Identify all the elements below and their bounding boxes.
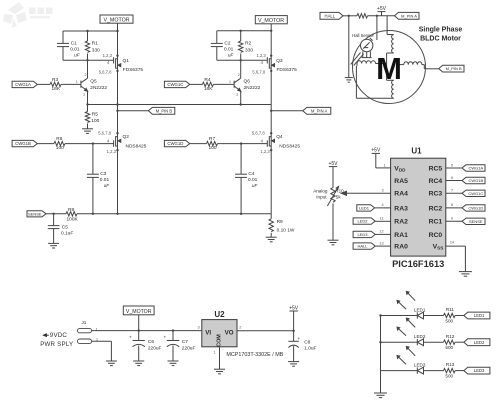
- svg-text:COM: COM: [217, 334, 223, 347]
- svg-text:uF: uF: [104, 183, 110, 188]
- svg-text:R12: R12: [446, 334, 455, 339]
- svg-text:R9: R9: [277, 219, 283, 225]
- svg-text:HALL: HALL: [357, 244, 368, 249]
- svg-text:4: 4: [107, 60, 110, 65]
- svg-text:M_PIN B: M_PIN B: [156, 108, 173, 113]
- svg-text:CWG1A: CWG1A: [468, 166, 483, 171]
- svg-text:16K: 16K: [52, 86, 61, 92]
- svg-text:13: 13: [379, 241, 383, 245]
- svg-text:RC2: RC2: [429, 205, 443, 212]
- svg-text:VSS: VSS: [433, 244, 444, 251]
- svg-text:RA4: RA4: [394, 191, 408, 198]
- svg-text:RA2: RA2: [394, 219, 408, 226]
- svg-text:C4: C4: [248, 171, 254, 177]
- svg-text:6: 6: [451, 176, 453, 180]
- svg-text:R11: R11: [446, 307, 455, 312]
- svg-text:M_PIN A: M_PIN A: [311, 108, 327, 113]
- svg-text:LED2: LED2: [414, 334, 426, 339]
- svg-text:RC1: RC1: [429, 219, 443, 226]
- svg-text:1: 1: [383, 163, 385, 167]
- svg-text:R10: R10: [335, 188, 344, 193]
- svg-text:LED3: LED3: [357, 232, 368, 237]
- svg-text:5,6,7,8: 5,6,7,8: [252, 70, 265, 75]
- svg-text:0.10 1W: 0.10 1W: [277, 227, 295, 233]
- svg-text:4: 4: [381, 203, 383, 207]
- svg-text:V_MOTOR: V_MOTOR: [126, 309, 152, 315]
- svg-text:R3: R3: [52, 77, 58, 83]
- svg-text:C1: C1: [71, 41, 77, 47]
- svg-text:12: 12: [379, 230, 383, 234]
- svg-text:R5: R5: [92, 112, 98, 118]
- svg-text:14: 14: [450, 240, 454, 244]
- svg-text:1.0uF: 1.0uF: [304, 345, 316, 351]
- svg-text:Single Phase: Single Phase: [419, 27, 463, 34]
- svg-text:4: 4: [107, 138, 110, 143]
- svg-text:16K: 16K: [204, 86, 213, 92]
- svg-text:2: 2: [239, 326, 241, 330]
- svg-text:PWR SPLY: PWR SPLY: [40, 341, 73, 348]
- svg-text:3: 3: [197, 326, 199, 330]
- svg-text:U2: U2: [214, 310, 225, 319]
- svg-text:7: 7: [451, 189, 453, 193]
- svg-text:Q6: Q6: [244, 78, 251, 84]
- svg-text:CWG1C: CWG1C: [167, 82, 183, 87]
- svg-text:500: 500: [445, 345, 453, 350]
- svg-text:220uF: 220uF: [182, 346, 196, 352]
- svg-text:FDS6375: FDS6375: [123, 67, 144, 73]
- svg-text:Q3: Q3: [276, 58, 283, 64]
- svg-text:C2: C2: [224, 41, 230, 47]
- svg-text:FDS6375: FDS6375: [277, 67, 298, 73]
- svg-text:RA3: RA3: [394, 205, 408, 212]
- svg-text:5k: 5k: [336, 194, 342, 199]
- svg-text:M_PIN B: M_PIN B: [446, 66, 462, 71]
- svg-text:11: 11: [380, 217, 384, 221]
- svg-text:LED1: LED1: [414, 307, 426, 312]
- svg-text:R4: R4: [204, 77, 210, 83]
- svg-text:500: 500: [445, 318, 453, 323]
- svg-text:1,2,3: 1,2,3: [103, 53, 113, 58]
- svg-text:+: +: [163, 335, 166, 340]
- svg-text:uF: uF: [74, 52, 80, 57]
- svg-text:M: M: [376, 51, 402, 86]
- svg-text:uF: uF: [252, 183, 258, 188]
- svg-text:8: 8: [451, 203, 453, 207]
- svg-text:V_MOTOR: V_MOTOR: [103, 18, 129, 24]
- svg-text:RA1: RA1: [394, 232, 408, 239]
- svg-text:+: +: [298, 336, 301, 341]
- svg-text:Analog: Analog: [313, 188, 328, 193]
- svg-text:NDS8425: NDS8425: [279, 143, 300, 149]
- svg-text:CWG1D: CWG1D: [468, 206, 483, 211]
- svg-text:Hall Sensor: Hall Sensor: [352, 33, 374, 38]
- svg-text:VO: VO: [225, 329, 234, 336]
- svg-text:SENSE: SENSE: [469, 219, 483, 224]
- svg-text:LED2: LED2: [474, 340, 485, 345]
- svg-text:100: 100: [209, 145, 217, 151]
- svg-text:R13: R13: [446, 362, 455, 367]
- svg-text:PIC16F1613: PIC16F1613: [392, 259, 444, 269]
- svg-text:+: +: [129, 335, 132, 340]
- svg-text:1: 1: [76, 80, 78, 84]
- svg-text:330: 330: [245, 47, 253, 53]
- svg-text:4: 4: [261, 138, 264, 143]
- svg-text:2N2222: 2N2222: [244, 85, 261, 91]
- svg-text:Q1: Q1: [123, 58, 130, 64]
- svg-text:CWG1C: CWG1C: [468, 191, 483, 196]
- svg-text:5,6,7,8: 5,6,7,8: [252, 130, 265, 135]
- svg-text:RA5: RA5: [394, 178, 408, 185]
- svg-text:Q2: Q2: [123, 134, 130, 140]
- svg-text:500: 500: [445, 374, 453, 379]
- svg-text:100K: 100K: [67, 217, 79, 223]
- svg-text:uF: uF: [228, 52, 234, 57]
- svg-text:R2: R2: [245, 41, 251, 47]
- svg-text:1: 1: [229, 80, 231, 84]
- svg-text:1,2,3: 1,2,3: [256, 53, 266, 58]
- svg-text:LED2: LED2: [357, 219, 368, 224]
- svg-text:Q4: Q4: [276, 134, 283, 140]
- svg-text:C3: C3: [100, 171, 106, 177]
- svg-text:5,6,7,8: 5,6,7,8: [98, 130, 111, 135]
- svg-text:9: 9: [451, 217, 453, 221]
- svg-text:C6: C6: [148, 339, 154, 345]
- svg-text:1,2,3: 1,2,3: [107, 149, 117, 154]
- svg-text:C5: C5: [62, 225, 68, 231]
- svg-text:2: 2: [236, 93, 238, 97]
- svg-text:100: 100: [56, 145, 64, 151]
- svg-text:5: 5: [451, 163, 453, 167]
- svg-text:RC4: RC4: [429, 178, 443, 185]
- svg-text:M_PIN A: M_PIN A: [401, 13, 417, 18]
- svg-text:MCP1703T-3302E / MB: MCP1703T-3302E / MB: [226, 352, 283, 358]
- svg-text:LED1: LED1: [474, 313, 485, 318]
- svg-text:LED1: LED1: [359, 206, 370, 211]
- svg-text:4: 4: [261, 60, 264, 65]
- svg-text:V_MOTOR: V_MOTOR: [258, 18, 284, 24]
- svg-text:2: 2: [85, 73, 87, 77]
- svg-text:1,2,3: 1,2,3: [260, 149, 270, 154]
- svg-text:Input: Input: [316, 194, 327, 199]
- svg-text:LED3: LED3: [474, 368, 485, 373]
- svg-text:CWG1D: CWG1D: [167, 141, 183, 146]
- svg-text:2: 2: [238, 73, 240, 77]
- svg-text:3: 3: [381, 189, 383, 193]
- svg-text:C8: C8: [304, 339, 310, 345]
- svg-text:SENSE: SENSE: [28, 211, 42, 216]
- svg-text:330: 330: [92, 47, 100, 53]
- svg-text:C7: C7: [182, 339, 188, 345]
- svg-text:R7: R7: [209, 136, 215, 142]
- svg-text:NDS8425: NDS8425: [126, 143, 147, 149]
- svg-text:LED3: LED3: [414, 362, 426, 367]
- svg-text:CWG1A: CWG1A: [15, 82, 31, 87]
- svg-text:RA0: RA0: [394, 244, 408, 251]
- svg-text:BLDC Motor: BLDC Motor: [420, 36, 461, 43]
- svg-text:RC5: RC5: [429, 165, 443, 172]
- svg-text:R1: R1: [92, 41, 98, 47]
- svg-text:2: 2: [83, 93, 85, 97]
- svg-text:CWG1B: CWG1B: [468, 178, 483, 183]
- svg-text:1: 1: [214, 350, 216, 354]
- svg-text:HALL: HALL: [325, 13, 336, 18]
- svg-text:RC3: RC3: [429, 191, 443, 198]
- svg-text:U1: U1: [411, 146, 422, 155]
- svg-text:R6: R6: [56, 136, 62, 142]
- svg-text:VI: VI: [205, 329, 211, 336]
- svg-text:220uF: 220uF: [148, 346, 162, 352]
- svg-text:0.1uF: 0.1uF: [61, 231, 73, 237]
- svg-text:+5V: +5V: [371, 148, 381, 154]
- svg-text:9VDC: 9VDC: [50, 332, 68, 339]
- svg-text:VDD: VDD: [394, 165, 406, 172]
- svg-text:100: 100: [91, 118, 99, 124]
- svg-text:5,6,7,8: 5,6,7,8: [99, 70, 112, 75]
- svg-text:RC0: RC0: [429, 232, 443, 239]
- svg-text:Q5: Q5: [90, 78, 97, 84]
- svg-text:2N2222: 2N2222: [90, 85, 107, 91]
- svg-text:R8: R8: [68, 207, 74, 213]
- svg-text:CWG1B: CWG1B: [15, 141, 31, 146]
- svg-text:J1: J1: [82, 320, 87, 325]
